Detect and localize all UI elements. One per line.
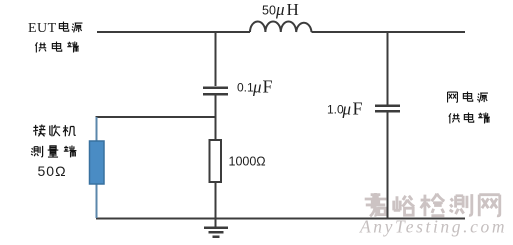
label 1.0uF [327,99,363,119]
label 0.1uF [237,77,273,97]
svg-text:F: F [353,99,363,119]
watermark 嘉峪检测网 [365,193,500,216]
wire top-left segment [97,31,250,33]
svg-text:μ: μ [252,78,262,97]
wire middle vertical upper [215,32,217,86]
capacitor C2 1.0uF [375,106,400,112]
ground [204,228,228,237]
wire right vertical upper [387,32,389,105]
svg-text:H: H [287,0,299,19]
label receiver measuring terminal [31,125,76,158]
svg-text:50: 50 [262,4,276,18]
svg-text:μ: μ [342,100,352,119]
label 50uH [262,0,299,19]
inductor L1 50uH [250,22,311,33]
wire middle vertical lower [215,182,217,227]
wire receiver branch blue vertical [96,117,98,218]
wire node horizontal to receiver [96,116,216,118]
svg-text:μ: μ [275,0,285,19]
wire right vertical lower [387,113,389,219]
resistor R1 1000ohm [210,140,222,182]
wire bottom [96,218,465,220]
label mains power terminal [448,92,490,124]
svg-text:F: F [263,77,273,97]
resistor R2 receiver 50ohm blue [90,141,105,184]
svg-text:1.0: 1.0 [327,103,344,117]
svg-text:0.1: 0.1 [237,81,254,95]
label EUT power terminal [28,21,82,52]
capacitor C1 0.1uF [203,88,228,95]
svg-text:50Ω: 50Ω [38,163,67,179]
svg-text:EUT: EUT [28,21,57,36]
svg-text:1000Ω: 1000Ω [229,155,266,169]
wire middle vertical mid [215,95,217,140]
wire top-right segment [312,31,466,33]
